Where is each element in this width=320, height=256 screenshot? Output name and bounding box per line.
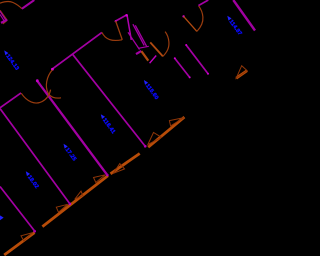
- wall J1: [0, 187, 35, 232]
- detached door symbol: thick jamb: [236, 71, 247, 79]
- double door arc 1: [46, 70, 61, 98]
- label T5: [23, 170, 40, 190]
- top-left jamb: orange line: [0, 10, 7, 20]
- room divider double wall W_DR line1: [133, 24, 144, 45]
- door triangle at J1 left: [21, 233, 33, 241]
- door triangle at J2 left: [56, 204, 67, 212]
- door leaf 2 thick orange: [141, 51, 148, 61]
- wall W5: [175, 58, 190, 78]
- door triangle at J2 right: [75, 191, 83, 199]
- label T2: [141, 79, 159, 101]
- door triangle at J4 right: [148, 133, 162, 145]
- wall J4: [73, 54, 146, 146]
- room divider double wall W_DR line2: [135, 25, 146, 46]
- top-left jamb: double wall line 1: [0, 11, 6, 20]
- door arc mid corridor: [102, 32, 122, 40]
- label T6: [1, 49, 20, 72]
- wall J3 (thick): [37, 81, 107, 175]
- door 4 hinge dot: [182, 15, 184, 17]
- corridor wall A (lower): [52, 32, 102, 69]
- door 4 arc: [197, 6, 203, 32]
- double door arc 2: [21, 90, 50, 103]
- stair edge segment S3: [111, 154, 140, 174]
- wall top-right thick: [233, 0, 255, 31]
- label T3: [98, 113, 116, 135]
- label T7 arrow: [0, 213, 4, 220]
- stair edge segment S4: [148, 117, 184, 147]
- stair edge segment S1: [4, 233, 34, 255]
- door 4 leaf: [184, 16, 197, 31]
- corner bright dots: [125, 14, 128, 17]
- wall W6 end dots: [185, 44, 187, 46]
- W_DR thin B line: [128, 32, 140, 49]
- corridor wall A (upper segment): [115, 15, 126, 21]
- door triangle at J3 left: [94, 175, 106, 183]
- wall A2 bottom-left: [0, 93, 21, 108]
- W_DR cap: [139, 46, 149, 48]
- corridor wall end dot: [51, 68, 54, 71]
- wall J3 end cap dot: [36, 79, 39, 82]
- label T4: [60, 143, 77, 163]
- door leaf orange mid: [116, 21, 123, 40]
- door 3 leaf: [150, 42, 163, 56]
- top-left jamb: double wall line 2: [0, 14, 5, 21]
- top-left jamb: thick stub: [1, 20, 7, 23]
- label T1: [224, 15, 242, 37]
- top-left corner: door arc: [0, 2, 22, 9]
- stair edge segment S2: [42, 176, 108, 227]
- wall W5 end dots: [174, 57, 176, 59]
- bright magenta bit: [150, 56, 157, 64]
- wall W6: [186, 45, 208, 74]
- junction dots: [33, 230, 36, 233]
- door triangle at J3 right: [113, 164, 124, 174]
- door leaf (magenta) at corridor corner: [127, 15, 131, 40]
- door triangle at line end: [169, 118, 184, 126]
- door 3 arc: [163, 32, 169, 57]
- top-right A wall: [198, 0, 208, 6]
- top-left A wall: [22, 0, 34, 9]
- detached door symbol: triangle: [236, 66, 247, 79]
- W_DR thick stub: [136, 51, 141, 54]
- wall J2: [0, 109, 70, 205]
